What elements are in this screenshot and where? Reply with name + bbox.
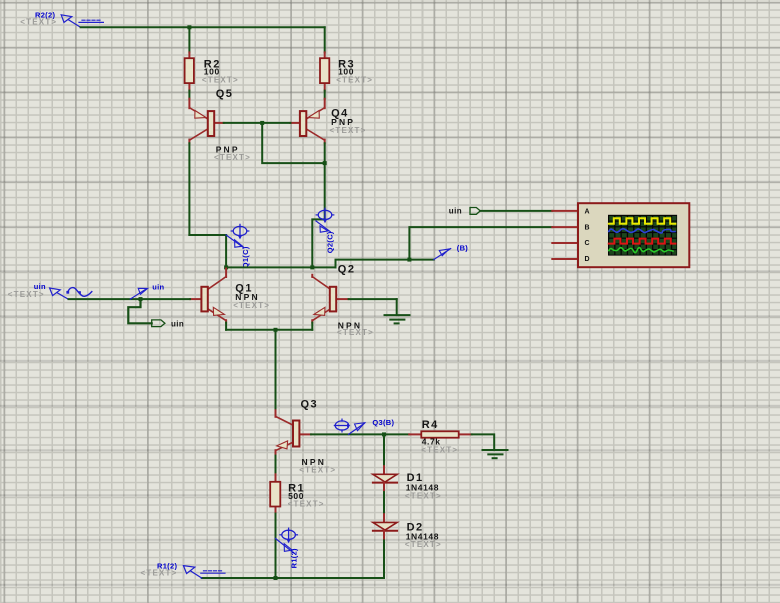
voltage probe uin (on base wire)	[130, 283, 164, 300]
diode D2	[373, 514, 442, 549]
wire R3 top drop	[324, 27, 326, 52]
transistor Q5 (PNP)	[189, 88, 251, 162]
svg-text:R4: R4	[422, 419, 439, 431]
svg-text:uin: uin	[449, 207, 462, 216]
junction top rail / R2	[187, 25, 191, 29]
svg-text:R1(2): R1(2)	[290, 548, 299, 568]
svg-text:<TEXT>: <TEXT>	[8, 290, 45, 299]
svg-text:Q3(B): Q3(B)	[372, 418, 394, 427]
wire top rail	[81, 26, 325, 28]
wire Q1 collector column down	[225, 235, 227, 267]
wire uin main	[69, 298, 191, 300]
trace channel D green sine	[609, 248, 673, 253]
voltage probe R1(2) bottom-left	[141, 561, 226, 578]
svg-text:(B): (B)	[457, 243, 469, 252]
svg-text:<TEXT>: <TEXT>	[141, 569, 178, 578]
wire base tie down	[262, 123, 325, 163]
wire R4 to ground	[472, 434, 495, 450]
wire terminal to scope A	[480, 210, 552, 212]
resistor R2	[185, 52, 239, 90]
current probe Q1(C)	[226, 224, 250, 268]
transistor Q4 (PNP, mirrored)	[290, 99, 366, 144]
wire branch to terminal	[128, 299, 151, 323]
junction diode branch	[382, 432, 386, 436]
wire Q5 collector corner to Q1 collector column	[189, 234, 226, 236]
wire probe jog left	[312, 219, 324, 267]
oscilloscope U1	[552, 203, 689, 267]
svg-text:<TEXT>: <TEXT>	[288, 499, 325, 508]
svg-text:<TEXT>: <TEXT>	[214, 153, 251, 162]
svg-text:<TEXT>: <TEXT>	[299, 466, 336, 475]
junction uin branch	[139, 297, 143, 301]
svg-text:<TEXT>: <TEXT>	[336, 75, 373, 84]
svg-text:<TEXT>: <TEXT>	[421, 445, 458, 454]
svg-text:<TEXT>: <TEXT>	[20, 17, 57, 26]
junction base tie	[260, 121, 264, 125]
junction emitter bus tail	[274, 328, 278, 332]
wire R2 top drop	[188, 27, 190, 52]
current probe Q3(B)	[334, 418, 394, 434]
transistor Q2 (NPN, mirrored)	[312, 264, 374, 337]
junction Q4 collector tie	[323, 161, 327, 165]
svg-text:<TEXT>: <TEXT>	[405, 540, 442, 549]
wire R2 to Q5 emitter	[188, 91, 190, 99]
wire Q1C-Q2C horizontal	[226, 266, 335, 268]
generator pointer arrow	[50, 288, 69, 299]
svg-text:Q5: Q5	[216, 88, 234, 100]
wire Q2 emitter drop	[311, 323, 313, 330]
wire D1 to D2	[383, 492, 385, 514]
wire emitter bus	[226, 329, 312, 331]
svg-text:uin: uin	[171, 319, 184, 328]
voltage probe (B)	[434, 243, 469, 259]
wire Q3 emitter to R1	[275, 456, 277, 475]
svg-text:Q3: Q3	[301, 399, 319, 411]
wire jog up to B stub	[336, 260, 434, 268]
wire R3 to Q4 emitter	[324, 91, 326, 99]
junction R1 bottom	[274, 576, 278, 580]
svg-text:Q1(C): Q1(C)	[241, 246, 250, 268]
terminal uin left	[152, 319, 185, 328]
current probe R1(2)	[276, 528, 299, 568]
svg-text:uin: uin	[152, 283, 164, 292]
diode D1	[373, 466, 442, 500]
current probe Q2(C)	[316, 208, 334, 253]
svg-text:D: D	[585, 256, 590, 263]
svg-text:Q2: Q2	[338, 264, 356, 276]
wire D2 to bottom rail	[383, 540, 385, 578]
wire Q4 collector down to probe corner	[324, 143, 326, 219]
svg-text:<TEXT>: <TEXT>	[330, 126, 367, 135]
wire B riser	[409, 227, 552, 260]
wire bottom rail	[202, 577, 384, 579]
wire Q2 base to ground	[349, 298, 397, 300]
scope screen	[608, 215, 677, 256]
resistor R1	[270, 474, 325, 513]
ground near R4	[483, 450, 508, 458]
transistor Q3 (NPN, mirrored)	[276, 399, 337, 475]
svg-text:B: B	[585, 224, 590, 231]
ground near Q2	[385, 299, 410, 323]
trace channel A yellow square	[609, 218, 676, 223]
voltage probe R2(2) top-left	[20, 10, 103, 27]
svg-text:<TEXT>: <TEXT>	[202, 75, 239, 84]
trace channel C red square	[609, 239, 676, 244]
resistor R3	[320, 52, 373, 90]
wire tail current drop	[275, 330, 277, 411]
junction Q1 collector	[224, 265, 228, 269]
trace channel B blue sine	[609, 229, 675, 233]
terminal uin at scope channel A	[449, 207, 481, 216]
wire Q5 collector down	[188, 143, 190, 235]
wire diode branch down	[383, 434, 385, 466]
sine generator uin	[8, 282, 92, 299]
svg-text:<TEXT>: <TEXT>	[337, 328, 374, 337]
svg-text:Q2(C): Q2(C)	[325, 231, 334, 253]
wire Q5 base to Q4 base	[224, 122, 291, 124]
svg-text:<TEXT>: <TEXT>	[405, 491, 442, 500]
wire Q1 emitter drop	[225, 323, 227, 330]
wire R1 to bottom rail	[275, 514, 277, 578]
wire Q3 base east	[311, 433, 409, 435]
svg-text:A: A	[585, 209, 590, 216]
junction B stub corner	[407, 258, 411, 262]
svg-text:<TEXT>: <TEXT>	[233, 301, 270, 310]
resistor R4	[409, 419, 472, 454]
svg-text:C: C	[585, 240, 590, 247]
junction Q2 collector	[310, 265, 314, 269]
transistor Q1 (NPN)	[190, 269, 270, 323]
